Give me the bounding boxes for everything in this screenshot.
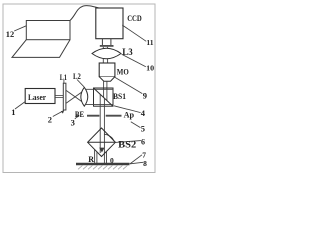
- svg-text:R: R: [88, 155, 94, 164]
- svg-text:MO: MO: [117, 66, 129, 76]
- svg-text:L3: L3: [122, 47, 133, 57]
- svg-text:11: 11: [146, 38, 153, 47]
- svg-text:Ap: Ap: [124, 109, 135, 119]
- svg-text:CCD: CCD: [127, 13, 142, 23]
- svg-text:10: 10: [146, 64, 154, 73]
- svg-text:4: 4: [141, 108, 146, 118]
- svg-text:0: 0: [110, 156, 114, 165]
- svg-text:L2: L2: [73, 72, 81, 81]
- svg-text:L1: L1: [60, 73, 67, 82]
- svg-text:BS1: BS1: [113, 91, 126, 101]
- svg-text:3: 3: [71, 118, 75, 128]
- svg-text:9: 9: [143, 91, 147, 101]
- svg-text:6: 6: [141, 137, 145, 146]
- svg-text:BS2: BS2: [118, 140, 137, 150]
- svg-text:12: 12: [6, 29, 14, 39]
- svg-text:5: 5: [141, 124, 145, 134]
- svg-text:2: 2: [48, 114, 52, 124]
- svg-text:Laser: Laser: [28, 92, 46, 102]
- svg-text:BE: BE: [75, 109, 84, 119]
- svg-text:8: 8: [143, 159, 147, 168]
- svg-text:1: 1: [11, 107, 15, 117]
